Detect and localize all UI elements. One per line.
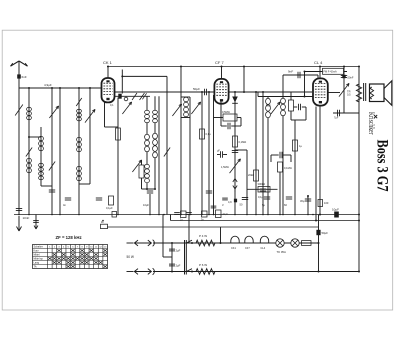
svg-text:6nF: 6nF xyxy=(22,75,27,79)
svg-text:0,5: 0,5 xyxy=(347,93,351,97)
svg-text:7µF: 7µF xyxy=(334,117,339,120)
svg-text:Kurz: Kurz xyxy=(34,250,40,253)
svg-text:5µ: 5µ xyxy=(262,203,265,207)
svg-text:50 W: 50 W xyxy=(127,255,134,259)
svg-text:9nF: 9nF xyxy=(288,70,293,74)
svg-text:Krischker: Krischker xyxy=(367,112,376,135)
svg-text:0,1MΩ: 0,1MΩ xyxy=(284,166,292,170)
svg-text:50µF: 50µF xyxy=(193,87,200,91)
svg-text:30µ: 30µ xyxy=(300,199,305,203)
svg-text:20kΩ: 20kΩ xyxy=(248,173,254,177)
svg-text:0,1: 0,1 xyxy=(110,103,114,107)
svg-text:0,1µ: 0,1µ xyxy=(258,195,264,199)
svg-text:0,1MΩ: 0,1MΩ xyxy=(239,140,247,144)
svg-text:0,5MΩ: 0,5MΩ xyxy=(222,110,230,114)
svg-text:Boss 3 G7: Boss 3 G7 xyxy=(373,140,390,192)
svg-text:CK1: CK1 xyxy=(231,247,236,250)
svg-text:P 6 W: P 6 W xyxy=(199,263,207,267)
svg-text:CL 4: CL 4 xyxy=(314,60,323,65)
svg-text:Mittel sp: Mittel sp xyxy=(34,258,44,261)
svg-text:Schalter: Schalter xyxy=(34,246,43,249)
svg-text:Mittel: Mittel xyxy=(34,254,40,257)
svg-text:ZF = 128 kHz: ZF = 128 kHz xyxy=(56,235,82,240)
svg-text:4,9: 4,9 xyxy=(228,200,232,204)
svg-text:TA: TA xyxy=(34,266,37,269)
svg-text:CF7: CF7 xyxy=(245,247,250,250)
svg-text:2µF: 2µF xyxy=(176,264,181,268)
svg-text:Lang: Lang xyxy=(34,262,40,265)
svg-text:CK 1: CK 1 xyxy=(103,60,113,65)
svg-text:TK 05A: TK 05A xyxy=(277,250,286,254)
svg-text:0,1µF: 0,1µF xyxy=(106,206,113,210)
svg-text:10µF: 10µF xyxy=(332,208,339,212)
svg-text:FM F-42mA: FM F-42mA xyxy=(324,71,338,74)
svg-text:2µF: 2µF xyxy=(176,249,181,253)
svg-text:CF 7: CF 7 xyxy=(215,60,224,65)
svg-text:24,0: 24,0 xyxy=(223,212,229,216)
svg-text:1,5MΩ: 1,5MΩ xyxy=(221,165,229,169)
svg-text:300kΩ: 300kΩ xyxy=(258,182,266,186)
svg-text:CL4: CL4 xyxy=(261,247,266,250)
svg-text:4,9µF: 4,9µF xyxy=(44,83,52,87)
svg-text:0,1µ: 0,1µ xyxy=(206,132,212,136)
svg-text:1µ: 1µ xyxy=(299,144,302,148)
svg-text:P 4 W: P 4 W xyxy=(199,234,207,238)
svg-text:20nF: 20nF xyxy=(348,76,354,80)
svg-text:50µF: 50µF xyxy=(322,231,329,235)
svg-text:100: 100 xyxy=(324,201,329,205)
svg-text:50Ω: 50Ω xyxy=(266,104,271,108)
svg-text:10nF: 10nF xyxy=(23,216,30,220)
svg-text:10µF: 10µF xyxy=(143,203,149,207)
